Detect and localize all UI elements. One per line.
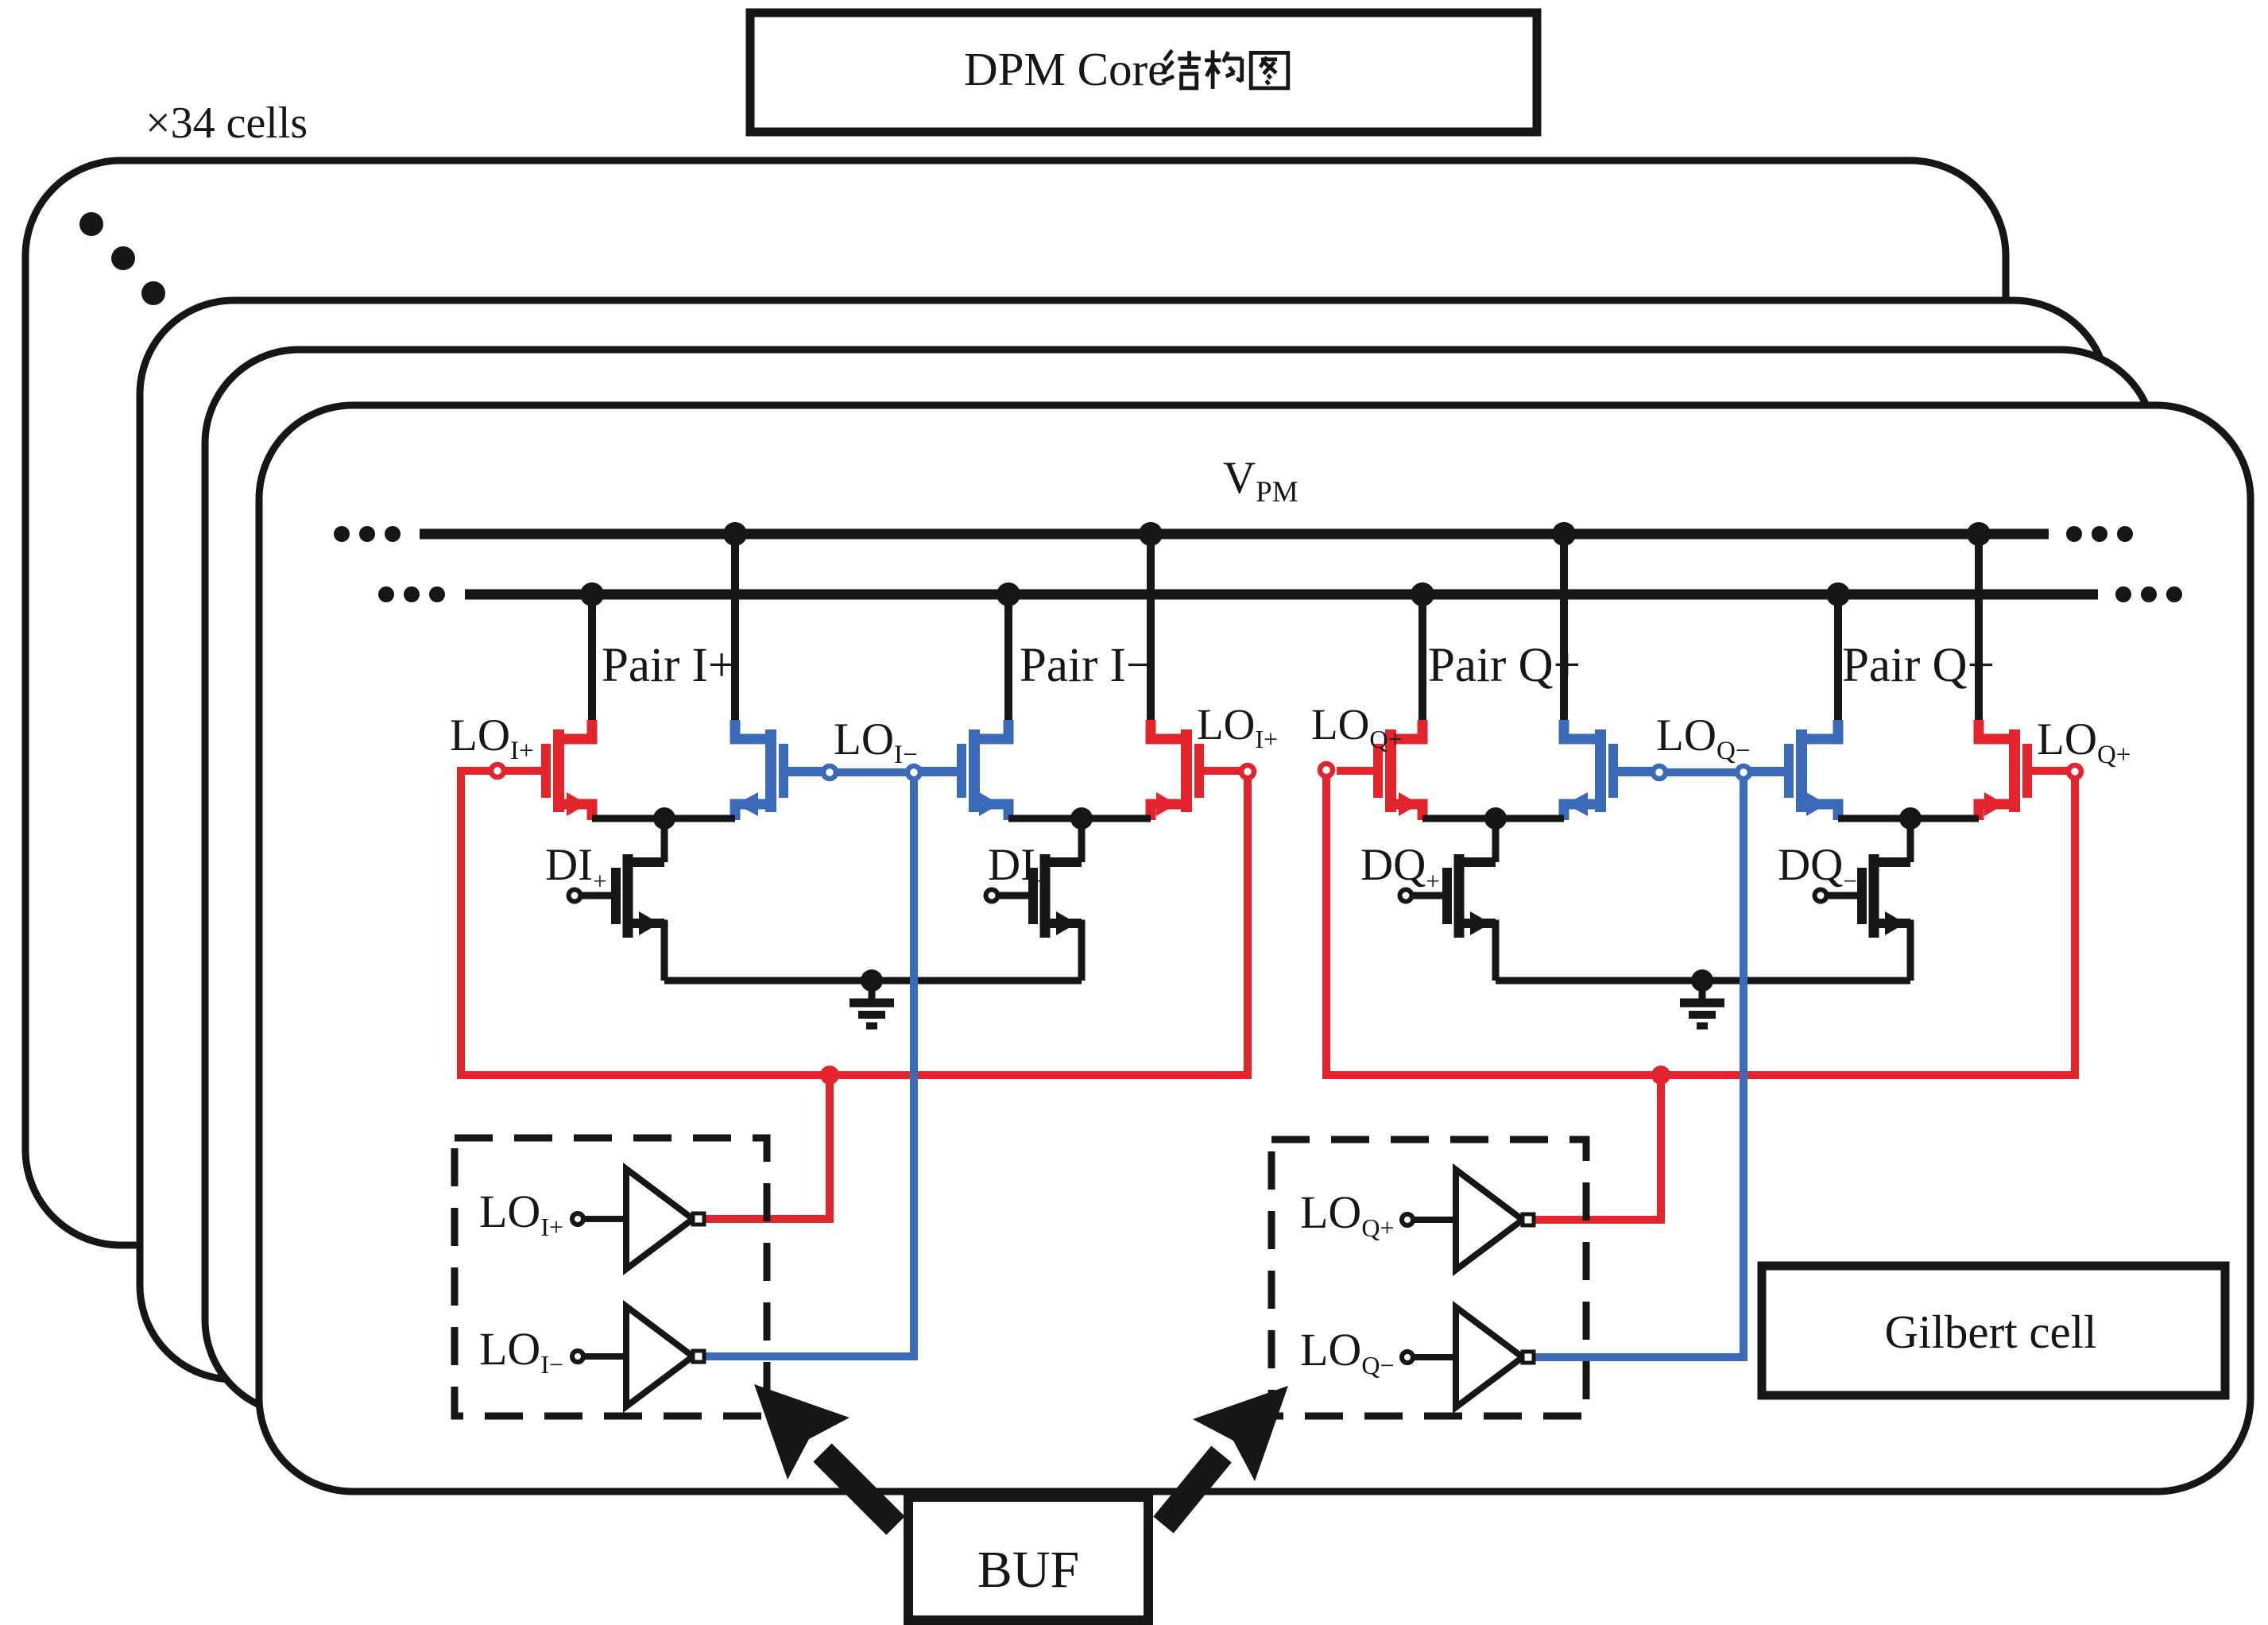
wire net LO_Q+ (red): gate loop xyxy=(1326,771,2075,1075)
pin gate circle M6 xyxy=(1653,766,1666,779)
svg-text:Pair I+: Pair I+ xyxy=(602,639,735,692)
buffer U3 LO_Q+ xyxy=(1402,1170,1534,1270)
box BUF xyxy=(908,1497,1148,1620)
title CJK glyphs 结构图 xyxy=(1162,50,1201,88)
wire Pair I- common source xyxy=(1008,815,1151,822)
pin gate circle M7 xyxy=(1737,766,1750,779)
buffer U4 LO_Q- xyxy=(1402,1307,1534,1407)
dashed box I-side buffers xyxy=(455,1138,767,1416)
wire Q-side tail rail xyxy=(1496,977,1910,985)
transistor M4 LO_I+ xyxy=(1139,522,1240,820)
dashed box Q-side buffers xyxy=(1271,1139,1586,1416)
second bus continuation dots left xyxy=(378,586,394,602)
ground I xyxy=(850,981,894,1026)
wire net LO_Q- drop to BUF inverter 4 xyxy=(1534,780,1744,1357)
node LO_I+ tap junction xyxy=(820,1066,839,1085)
transistor M7 LO_Q- xyxy=(1747,582,1850,820)
transistor M6 LO_Q- xyxy=(1552,522,1655,820)
svg-text:Gilbert cell: Gilbert cell xyxy=(1884,1306,2096,1358)
arrow BUF to I buffers xyxy=(822,1453,896,1526)
pin gate circle M3 xyxy=(908,766,920,779)
transistor M5 LO_Q+ xyxy=(1337,582,1434,820)
wire net LO_I+ drop to BUF inverter 1 xyxy=(704,1075,830,1219)
transistor M3 LO_I- xyxy=(920,582,1020,820)
transistor M11 DQ+ xyxy=(1400,818,1496,981)
buffer U2 LO_I- xyxy=(572,1306,704,1406)
node Pair I+ source junction xyxy=(653,807,675,830)
node Pair Q+ source junction xyxy=(1484,807,1507,830)
wire net LO_Q+ drop to BUF inverter 3 xyxy=(1534,1075,1661,1220)
svg-text:Pair I−: Pair I− xyxy=(1020,639,1153,692)
transistor M2 LO_I- xyxy=(723,522,825,820)
node Q ground junction xyxy=(1691,969,1713,992)
wire V_PM top bus xyxy=(420,529,2049,540)
cell card 4 (front Gilbert cell) xyxy=(259,405,2251,1492)
svg-text:BUF: BUF xyxy=(977,1541,1079,1599)
wire I-side tail rail xyxy=(664,977,1082,985)
pin gate circle M2 xyxy=(823,766,836,779)
cell card 3 xyxy=(205,350,2154,1414)
wire net LO_I- drop to BUF inverter 2 xyxy=(704,780,914,1356)
wire net LO_I+ (red): gate loop left xyxy=(461,771,1248,1075)
wire net LO_I- (blue): between M2 and M3 gates xyxy=(787,768,957,776)
node I ground junction xyxy=(861,969,883,992)
wire Pair Q+ common source xyxy=(1422,815,1564,822)
cell card 2 xyxy=(140,300,2107,1379)
svg-text:Pair Q−: Pair Q− xyxy=(1842,639,1995,692)
pin gate circle M1 xyxy=(491,764,504,777)
V_PM bus continuation dots left xyxy=(334,526,350,542)
node LO_Q+ tap junction xyxy=(1651,1066,1670,1085)
transistor M1 LO_I+ xyxy=(505,582,604,820)
node Pair I- source junction xyxy=(1070,807,1093,830)
wire second bus xyxy=(465,590,2098,600)
transistor M10 DI- xyxy=(986,818,1082,981)
second bus continuation dots right xyxy=(2115,586,2131,602)
stack continuation dots xyxy=(79,212,103,236)
wire net LO_Q- (blue): between M6 and M7 gates xyxy=(1617,768,1786,776)
pin gate circle M5 xyxy=(1320,764,1333,776)
title box DPM Core xyxy=(750,13,1537,132)
ground Q xyxy=(1680,981,1724,1026)
transistor M9 DI+ xyxy=(569,818,665,981)
svg-text:DPM Core: DPM Core xyxy=(964,43,1168,95)
svg-text:Pair Q+: Pair Q+ xyxy=(1428,639,1581,692)
transistor M8 LO_Q+ xyxy=(1967,522,2069,820)
pin gate circle M8 xyxy=(2069,765,2081,778)
wire Pair Q- common source xyxy=(1838,815,1979,822)
wire Pair I+ common source xyxy=(592,815,735,822)
cell card 1 (backmost of x34 stack) xyxy=(25,161,2006,1245)
buffer U1 LO_I+ xyxy=(572,1169,704,1269)
svg-text:×34 cells: ×34 cells xyxy=(145,99,308,148)
arrow BUF to Q buffers xyxy=(1163,1454,1221,1525)
box Gilbert cell xyxy=(1762,1266,2225,1395)
transistor M12 DQ- xyxy=(1815,818,1911,981)
pin gate circle M4 xyxy=(1241,765,1254,778)
node Pair Q- source junction xyxy=(1899,807,1922,830)
V_PM bus continuation dots right xyxy=(2066,526,2082,542)
